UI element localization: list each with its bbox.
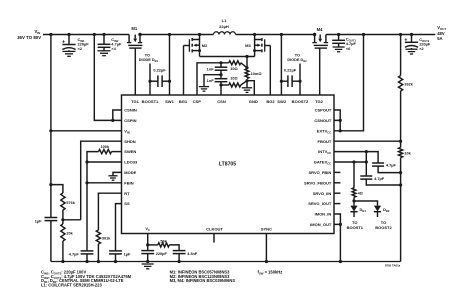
junction 20k at ground rail bbox=[61, 260, 64, 263]
svg-text:BOOST2: BOOST2 bbox=[292, 99, 309, 104]
junction LDO33 node bbox=[85, 160, 88, 163]
svg-text:4.7µF: 4.7µF bbox=[374, 176, 385, 181]
wire CSPIN to input rail bbox=[94, 35, 121, 121]
svg-text:FBIN: FBIN bbox=[124, 180, 133, 185]
resistor 100k SWEN pull-up bbox=[87, 145, 122, 162]
capacitor 1uF VIN bypass bbox=[35, 218, 58, 224]
capacitor 1nF CSP bbox=[207, 63, 228, 75]
transistor M1 (input-side top NMOS switch) bbox=[127, 26, 142, 48]
resistor 301k RT frequency set bbox=[96, 193, 121, 261]
svg-text:1µF: 1µF bbox=[35, 218, 42, 223]
svg-text:BOOST1: BOOST1 bbox=[142, 99, 159, 104]
pin labels bottom VC CLKOUT SYNC bbox=[145, 226, 272, 232]
svg-text:M3: M3 bbox=[245, 43, 251, 48]
ground sense resistor bbox=[242, 81, 252, 93]
svg-text:DIODE DB1: DIODE DB1 bbox=[139, 58, 159, 63]
wire M4 gate to TG2 bbox=[319, 48, 321, 95]
svg-text:DB2: DB2 bbox=[383, 207, 390, 213]
junction VC node bbox=[146, 243, 149, 246]
svg-text:220pF: 220pF bbox=[156, 251, 168, 256]
wire INTVCC-GATEVCC riser bbox=[365, 152, 367, 176]
junction BOOST1 / boost cap bbox=[148, 80, 151, 83]
resistor 10 Ohm CSN filter bbox=[221, 76, 247, 87]
wire M3 gate to BG2 bbox=[269, 46, 271, 96]
pin stubs SRVO_FBIN SRVO_FBOUT SRVO_IIN SRVO_IOUT bbox=[334, 172, 340, 203]
wire VIN pin to left rail bbox=[51, 130, 122, 132]
svg-text:SWEN: SWEN bbox=[124, 149, 136, 154]
svg-text:SW1: SW1 bbox=[165, 99, 175, 104]
junction IMON at ground rail bbox=[339, 260, 342, 263]
wire 1nF midpoint ground link bbox=[204, 75, 221, 87]
junction COUT2 bbox=[410, 33, 413, 36]
note switching frequency bbox=[258, 270, 283, 276]
wire IMON_IN link bbox=[334, 214, 340, 224]
transistor M3 (output-side bottom NMOS) bbox=[245, 35, 270, 57]
junction CIN1 bbox=[67, 33, 70, 36]
svg-text:LT8705: LT8705 bbox=[219, 162, 236, 168]
svg-text:+: + bbox=[404, 37, 407, 43]
capacitor COUT2 220uF x2 (polarized) bbox=[404, 35, 431, 55]
svg-text:VIN: VIN bbox=[34, 29, 40, 35]
svg-text:TO: TO bbox=[145, 53, 150, 57]
capacitor CIN2 4.7uF x4 (ceramic input) bbox=[98, 35, 122, 56]
svg-text:M4: M4 bbox=[317, 27, 323, 32]
junction BOOST2 / boost cap bbox=[298, 80, 301, 83]
svg-text:4.7µF: 4.7µF bbox=[69, 251, 80, 256]
svg-text:SRVO_FBIN: SRVO_FBIN bbox=[308, 170, 331, 175]
op-amp U1 LT8705 controller body bbox=[122, 95, 335, 234]
svg-text:0.22µF: 0.22µF bbox=[284, 68, 297, 73]
junction GATEVCC-INTVCC tie bbox=[365, 160, 368, 163]
wire DB2 anode link bbox=[354, 200, 378, 202]
wire LDO33/FBIN riser bbox=[86, 162, 88, 251]
svg-text:10k: 10k bbox=[404, 152, 411, 156]
wire SHDN tap link bbox=[63, 219, 81, 221]
svg-text:CSP: CSP bbox=[193, 99, 202, 104]
svg-text:SW2: SW2 bbox=[277, 99, 287, 104]
svg-text:22µH: 22µH bbox=[219, 24, 229, 29]
svg-text:CSNOUT: CSNOUT bbox=[314, 118, 331, 123]
capacitor 4.7uF FBIN soft bias bbox=[69, 251, 94, 262]
wire CSNOUT link bbox=[334, 120, 340, 130]
svg-text:3.3nF: 3.3nF bbox=[187, 251, 198, 256]
wire CSNIN link bbox=[113, 110, 122, 120]
svg-text:IMON_OUT: IMON_OUT bbox=[310, 222, 332, 227]
svg-text:CSNIN: CSNIN bbox=[124, 108, 137, 113]
svg-text:TO: TO bbox=[295, 53, 300, 57]
capacitor 0.22uF BOOST1-SW1 bootstrap bbox=[150, 68, 170, 87]
junction CSN node bbox=[219, 83, 222, 86]
junction 576k top on left rail bbox=[49, 183, 52, 186]
capacitor 3.3nF VC bbox=[173, 251, 198, 262]
note MOSFET part numbers bbox=[170, 270, 236, 284]
junction VIN pin on left rail bbox=[49, 129, 52, 132]
wire SYNC to ground rail bbox=[265, 234, 267, 262]
wire BOOST2 column bbox=[299, 64, 301, 96]
note figure code bbox=[385, 264, 401, 268]
svg-text:DIODE DB2: DIODE DB2 bbox=[287, 58, 307, 63]
svg-text:M1: M1 bbox=[131, 26, 137, 31]
svg-text:BG2: BG2 bbox=[266, 99, 275, 104]
junction CSP node / 1nF bbox=[219, 61, 222, 64]
svg-text:L1: COILCRAFT SER2915H-223: L1: COILCRAFT SER2915H-223 bbox=[41, 282, 102, 287]
svg-text:0.22µF: 0.22µF bbox=[153, 68, 166, 73]
pin CLKOUT stub bbox=[213, 234, 215, 243]
capacitor 220pF VC bbox=[141, 251, 167, 262]
svg-text:4.7µF: 4.7µF bbox=[386, 163, 397, 168]
svg-text:INTVCC: INTVCC bbox=[318, 149, 331, 155]
svg-text:36V TO 80V: 36V TO 80V bbox=[17, 35, 41, 40]
resistor 10k FBOUT divider lower bbox=[399, 141, 412, 172]
wire M2 gate to BG1 bbox=[183, 46, 185, 96]
svg-text:M3, M4: INFINEON BSC039N06NS: M3, M4: INFINEON BSC039N06NS bbox=[170, 278, 236, 283]
junction CIN2 bbox=[102, 33, 105, 36]
inductor L1 22uH bbox=[214, 18, 236, 35]
capacitor 4.7uF GATEVCC bbox=[360, 176, 400, 185]
svg-text:TG2: TG2 bbox=[315, 99, 324, 104]
svg-text:VIN: VIN bbox=[124, 128, 129, 134]
wire FBOUT link bbox=[334, 140, 401, 142]
junction INTVCC cap ground node bbox=[399, 171, 402, 174]
ground MODE pin bbox=[108, 172, 121, 180]
wire right ground riser bbox=[400, 173, 402, 262]
svg-text:1nF: 1nF bbox=[207, 78, 215, 83]
svg-text:L1: L1 bbox=[222, 18, 227, 23]
wire EXTVCC to VOUT rail bbox=[334, 35, 364, 131]
junction M2 drain bbox=[198, 33, 201, 36]
wire VC pin column bbox=[147, 234, 149, 251]
node TO DIODE DB1 (BOOST1 feed) bbox=[139, 53, 159, 62]
diode DB2 boost supply bbox=[374, 201, 390, 217]
svg-text:+: + bbox=[62, 39, 65, 45]
wire INTVCC link bbox=[334, 152, 378, 163]
node VIN input label bbox=[17, 29, 41, 40]
junction 220pF at ground rail bbox=[146, 260, 149, 263]
capacitor 4.7uF INTVCC bbox=[372, 163, 401, 173]
wire IMON_OUT to ground rail bbox=[334, 224, 340, 261]
svg-text:SRVO_IOUT: SRVO_IOUT bbox=[308, 201, 332, 206]
svg-text:10mΩ: 10mΩ bbox=[251, 71, 262, 76]
svg-text:BOOST2: BOOST2 bbox=[375, 225, 392, 230]
pin labels left column CSNIN CSPIN VIN SHDN SWEN LDO33 MODE FBIN RT SS bbox=[124, 108, 138, 207]
node TO BOOST1 label bbox=[347, 220, 364, 230]
capacitor CIN1 220uF x2 (polarized, input bulk) bbox=[62, 35, 89, 57]
node SW1 junction bbox=[168, 33, 171, 36]
svg-text:BG1: BG1 bbox=[179, 99, 188, 104]
junction CSNOUT-EXTVCC tie bbox=[339, 129, 342, 132]
wire left rail lower to ground rail bbox=[50, 221, 52, 262]
wire SW1 rail segment bbox=[140, 34, 214, 36]
junction EXTVCC riser bbox=[362, 33, 365, 36]
svg-text:VC: VC bbox=[145, 226, 150, 232]
junction FBIN cap at ground rail bbox=[85, 260, 88, 263]
svg-text:1nF: 1nF bbox=[207, 66, 215, 71]
svg-text:GND: GND bbox=[249, 99, 258, 104]
junction 3.3nF at ground rail bbox=[178, 260, 181, 263]
junction IMON tie bbox=[339, 223, 342, 226]
svg-text:IMON_IN: IMON_IN bbox=[315, 212, 332, 217]
capacitor COUT1 4.7uF x6 bbox=[332, 35, 356, 52]
svg-text:GATEVCC: GATEVCC bbox=[314, 160, 332, 166]
svg-text:FBOUT: FBOUT bbox=[318, 139, 332, 144]
junction FBOUT divider tap bbox=[399, 140, 402, 143]
pin labels right column CSPOUT CSNOUT EXTVCC FBOUT INTVCC GATEVCC SRVO IMON bbox=[304, 108, 332, 227]
junction FBIN node bbox=[85, 181, 88, 184]
svg-text:CSN: CSN bbox=[217, 99, 226, 104]
svg-text:392k: 392k bbox=[404, 83, 413, 87]
junction 301k at ground rail bbox=[97, 260, 100, 263]
svg-text:576k: 576k bbox=[66, 201, 75, 205]
junction INTVCC tie bbox=[365, 150, 368, 153]
node VOUT output label bbox=[437, 25, 446, 41]
capacitor 0.22uF BOOST2-SW2 bootstrap bbox=[281, 68, 300, 87]
node SW2 junction bbox=[280, 33, 283, 36]
wire VOUT rail bbox=[326, 34, 435, 36]
wire CSN pin column bbox=[220, 85, 222, 95]
diode DB1 boost supply bbox=[350, 201, 366, 217]
resistor 392k FBOUT divider upper bbox=[399, 35, 414, 142]
wire SW2 rail segment bbox=[236, 34, 315, 36]
wire M1 gate to TG1 bbox=[134, 48, 136, 95]
junction CSPIN riser bbox=[93, 33, 96, 36]
svg-text:BOOST1: BOOST1 bbox=[347, 225, 364, 230]
junction SW1 / boost cap bbox=[168, 80, 171, 83]
junction 392k riser bbox=[399, 33, 402, 36]
capacitor 1nF CSN bbox=[207, 75, 228, 85]
junction GATEVCC 4ohm tap bbox=[352, 160, 355, 163]
junction DB1 anode node bbox=[352, 199, 355, 202]
note component values left block bbox=[41, 270, 132, 288]
wire GATEVCC link bbox=[334, 161, 366, 163]
svg-text:5A: 5A bbox=[437, 36, 442, 41]
wire BOOST1 column bbox=[149, 64, 151, 96]
resistor 10 Ohm CSP filter bbox=[229, 61, 247, 71]
svg-text:301k: 301k bbox=[102, 236, 111, 240]
junction input rail / left rail bbox=[49, 33, 52, 36]
resistor 20k SHDN divider lower bbox=[61, 220, 74, 262]
junction sense resistor bottom bbox=[245, 79, 248, 82]
svg-text:TG1: TG1 bbox=[131, 99, 140, 104]
node TO DIODE DB2 (BOOST2 feed) bbox=[287, 53, 307, 62]
pin labels top row TG1 BOOST1 SW1 BG1 CSP CSN GND BG2 SW2 BOOST2 TG2 bbox=[131, 99, 324, 104]
junction CSNOUT tie bbox=[339, 119, 342, 122]
ground CSP/CSN filter bbox=[199, 87, 209, 92]
svg-text:MODE: MODE bbox=[124, 170, 136, 175]
svg-text:1µF: 1µF bbox=[124, 251, 131, 256]
svg-text:8705 TA01a: 8705 TA01a bbox=[385, 264, 401, 268]
svg-text:20k: 20k bbox=[66, 231, 73, 235]
svg-text:CSPIN: CSPIN bbox=[124, 118, 136, 123]
junction SW2 / boost cap bbox=[280, 80, 283, 83]
svg-text:LDO33: LDO33 bbox=[124, 160, 138, 165]
junction sense resistor top bbox=[245, 55, 248, 58]
junction SS cap at ground rail bbox=[114, 260, 117, 263]
svg-text:M2: M2 bbox=[202, 43, 208, 48]
svg-text:SS: SS bbox=[124, 201, 130, 206]
wire SHDN drop bbox=[81, 141, 122, 220]
svg-text:SRVO_IIN: SRVO_IIN bbox=[313, 191, 332, 196]
svg-text:CLKOUT: CLKOUT bbox=[206, 226, 223, 231]
svg-text:DB1: DB1 bbox=[360, 207, 367, 213]
wire SW1 column to pin SW1 bbox=[169, 35, 171, 96]
junction SYNC at ground rail bbox=[265, 260, 268, 263]
junction M3 drain bbox=[253, 33, 256, 36]
resistor 4 Ohm boost diode feed bbox=[352, 162, 363, 201]
svg-text:SYNC: SYNC bbox=[261, 226, 272, 231]
svg-text:fSW = 150kHz: fSW = 150kHz bbox=[258, 270, 283, 276]
junction GATEVCC cap ground node bbox=[399, 183, 402, 186]
capacitor 1uF soft-start bbox=[109, 204, 131, 262]
junction 10 Ohm CSP at sense+ bbox=[245, 66, 248, 69]
svg-text:48V: 48V bbox=[437, 31, 445, 36]
wire sense bottom to GND pin bbox=[247, 81, 254, 95]
svg-text:EXTVCC: EXTVCC bbox=[317, 128, 332, 134]
junction CSNIN-CSPIN tie bbox=[111, 119, 114, 122]
wire M2/M3 source sense node bbox=[200, 56, 255, 58]
svg-text:10Ω: 10Ω bbox=[230, 66, 237, 71]
resistor RSENSE 10mOhm bbox=[245, 57, 261, 79]
transistor M4 (output-side top NMOS switch) bbox=[312, 27, 328, 48]
resistor 56k compensation bbox=[148, 240, 179, 251]
wire ground rail bbox=[51, 261, 401, 263]
junction COUT1 bbox=[337, 33, 340, 36]
wire left VIN rail upper bbox=[50, 35, 52, 218]
svg-text:CSPOUT: CSPOUT bbox=[315, 108, 332, 113]
transistor M2 (input-side bottom NMOS) bbox=[184, 35, 209, 57]
svg-text:10Ω: 10Ω bbox=[230, 76, 237, 81]
svg-text:RT: RT bbox=[124, 191, 130, 196]
svg-text:SRVO_FBOUT: SRVO_FBOUT bbox=[304, 180, 332, 185]
junction 1nF midpoint bbox=[219, 73, 222, 76]
wire CSP pin riser bbox=[197, 63, 229, 95]
wire CSPOUT link bbox=[334, 110, 340, 120]
wire LDO33 link bbox=[87, 161, 122, 163]
wire VIN top rail bbox=[43, 34, 129, 36]
svg-text:SHDN: SHDN bbox=[124, 139, 135, 144]
wire SW2 column to pin SW2 bbox=[280, 35, 282, 96]
svg-text:4Ω: 4Ω bbox=[358, 191, 363, 195]
node TO BOOST2 label bbox=[375, 220, 392, 230]
wire FBIN link bbox=[87, 182, 122, 184]
junction SHDN divider tap bbox=[61, 218, 64, 221]
resistor 576k SHDN divider upper bbox=[51, 185, 76, 220]
ground main rail symbol bbox=[142, 264, 154, 269]
